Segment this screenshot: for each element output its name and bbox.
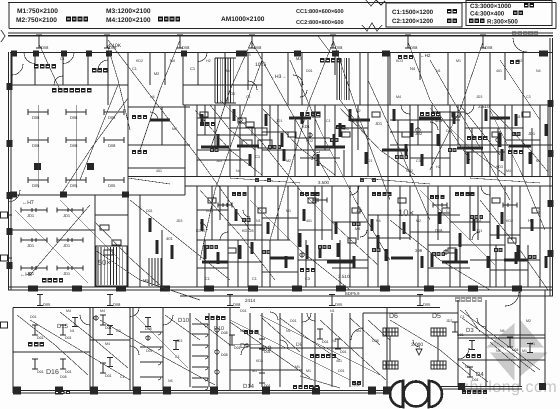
wall top rooms [10, 52, 553, 54]
cjk elevator room [34, 64, 56, 69]
thick batten fixture [509, 144, 531, 147]
door arc mid [293, 75, 303, 85]
svg-text:M3:1200×2100: M3:1200×2100 [106, 8, 151, 15]
riser tick D08 [249, 35, 255, 48]
dimension tick [467, 367, 473, 377]
cjk room i [372, 192, 392, 196]
cjk mid room c [467, 136, 487, 140]
fixture bar [201, 114, 204, 126]
svg-text:N4: N4 [150, 95, 155, 99]
wire mid [230, 178, 300, 183]
wire mid [262, 108, 335, 175]
svg-text:M4: M4 [66, 309, 71, 313]
thick batten fixture [350, 118, 370, 121]
corridor name cjk2 [360, 178, 376, 182]
fixture bar [503, 203, 517, 208]
canteen fixture stems [37, 105, 39, 188]
lower bottom wall inner a [13, 392, 391, 394]
wall column dash [512, 286, 522, 292]
column [33, 51, 39, 57]
svg-text:JD3: JD3 [476, 95, 482, 99]
door arc [205, 334, 208, 337]
stairwell treads C x97-126 y246-285 [98, 247, 123, 285]
revolving door [390, 381, 403, 407]
thick batten fixture [391, 256, 413, 259]
fluorescent D08 [104, 137, 124, 143]
top band extra rooms x128-183 [149, 53, 151, 86]
wall column dash [28, 286, 38, 292]
svg-text:N4: N4 [410, 66, 416, 71]
wire [408, 42, 470, 160]
fixture bar [265, 114, 268, 126]
wire [200, 60, 262, 260]
svg-text:D6: D6 [389, 313, 398, 320]
svg-text:D01: D01 [340, 350, 347, 354]
svg-text:KD126: KD126 [242, 229, 254, 233]
canteen bottom wall [10, 194, 185, 196]
column [548, 200, 554, 207]
svg-text:N6: N6 [168, 379, 173, 383]
cjk room label a [320, 58, 341, 62]
column [106, 51, 112, 57]
column [7, 140, 13, 147]
fixture bar [171, 245, 174, 259]
column [90, 387, 98, 395]
left edge protrusion symbols [1, 212, 8, 218]
fixture bar [517, 245, 520, 259]
column [382, 51, 390, 57]
fixture bar [149, 218, 152, 232]
column [210, 387, 218, 395]
riser tick D08 [36, 35, 42, 48]
wire lower [230, 322, 310, 378]
wall column dash [424, 286, 434, 292]
riser tick D08 [480, 35, 486, 48]
svg-text:D01: D01 [446, 129, 453, 133]
fixture bar [545, 124, 548, 136]
corridor tick D05 [329, 295, 335, 306]
svg-text:N4: N4 [376, 219, 381, 223]
svg-text:M1: M1 [536, 159, 541, 163]
wire lower [262, 318, 300, 352]
column [294, 51, 301, 57]
column [11, 51, 17, 57]
door arc [163, 315, 173, 325]
svg-text:401: 401 [306, 219, 312, 223]
door arc [481, 186, 490, 195]
cjk texture [352, 222, 361, 226]
corridor bottom line [185, 185, 553, 187]
svg-text:C2:1200×1200: C2:1200×1200 [392, 18, 434, 25]
svg-text:30B: 30B [415, 248, 422, 253]
fixture bar [285, 256, 288, 268]
dimension tick [452, 322, 458, 332]
svg-text:M1: M1 [286, 209, 291, 213]
svg-text:KD3: KD3 [496, 165, 503, 169]
thick batten fixture [202, 260, 228, 263]
wire [210, 40, 252, 150]
cjk after C3 [524, 3, 534, 8]
cjk texture [205, 245, 218, 249]
svg-text:KD2: KD2 [406, 169, 413, 173]
svg-text:JD3: JD3 [176, 339, 182, 343]
svg-text:←H7: ←H7 [22, 200, 34, 206]
svg-text:401: 401 [336, 359, 342, 363]
wire arc [243, 210, 250, 217]
wall column dash [468, 286, 478, 292]
svg-text:D08: D08 [221, 353, 228, 357]
svg-text:←H2: ←H2 [420, 53, 431, 58]
door arc top right exit [513, 38, 527, 52]
column [7, 83, 13, 90]
fixture bar [217, 134, 220, 146]
cjk before R [469, 19, 485, 24]
svg-text:C3: C3 [416, 159, 421, 163]
svg-text:C3: C3 [526, 95, 531, 99]
fixture bar [431, 253, 434, 267]
wire mid [195, 110, 262, 175]
svg-text:D10: D10 [214, 326, 224, 332]
svg-text:D05: D05 [43, 302, 51, 307]
wire lower [300, 376, 340, 388]
door arc [205, 345, 208, 348]
door arc [198, 53, 207, 62]
cjk texture [432, 252, 445, 256]
svg-text:C1: C1 [190, 66, 196, 71]
svg-text:JD1: JD1 [63, 213, 71, 218]
fixture bar [421, 256, 424, 268]
legend box C1 C2 [386, 3, 462, 27]
wire br [462, 318, 535, 372]
cjk mens locker [310, 354, 336, 358]
break squiggle header [362, 23, 382, 31]
grille connector right [437, 336, 439, 361]
column [312, 387, 320, 395]
svg-text:C1:1500×1200: C1:1500×1200 [392, 9, 434, 16]
dimension tick [259, 373, 265, 383]
wire mid [360, 178, 430, 184]
middle band horizontal sub-walls [197, 134, 262, 136]
door arc [158, 332, 161, 335]
svg-text:D01: D01 [37, 336, 44, 340]
svg-text:D08: D08 [233, 302, 241, 307]
door arc [158, 362, 161, 365]
dimension tick [145, 318, 151, 327]
batten JD1 [21, 208, 47, 213]
fixture bar [281, 133, 284, 147]
svg-text:C3: C3 [246, 53, 251, 57]
wire arc [200, 223, 207, 230]
svg-text:JD2: JD2 [356, 209, 362, 213]
svg-text:D01: D01 [146, 209, 153, 213]
dimension tick [469, 341, 475, 350]
svg-text:M4: M4 [396, 95, 401, 99]
fixture bar [487, 256, 490, 268]
corridor tick D05 [417, 295, 423, 306]
svg-text:D08: D08 [410, 45, 418, 50]
fixture bar [339, 123, 342, 137]
svg-text:M4: M4 [100, 309, 105, 313]
svg-text:H2: H2 [436, 165, 441, 169]
thick batten fixture [419, 116, 441, 119]
left edge symbol lower [1, 322, 8, 328]
riser tick D08 [177, 35, 183, 48]
door arc [130, 346, 139, 355]
svg-text:M2: M2 [154, 72, 159, 76]
wire [290, 60, 390, 260]
svg-text:M4: M4 [226, 69, 231, 73]
svg-text:C3: C3 [116, 329, 121, 333]
column [332, 51, 339, 57]
wire [210, 105, 255, 150]
lower band vertical walls [196, 186, 198, 287]
stairwell treads B x337-349 [337, 58, 349, 100]
canteen diagonal wires [62, 98, 128, 193]
svg-text:C1: C1 [446, 209, 451, 213]
dimension tick [60, 359, 66, 369]
cluster 50X room [95, 214, 128, 216]
fluorescent D05 [104, 177, 124, 183]
main bottom wall outer [8, 286, 553, 288]
svg-text:C1: C1 [175, 355, 180, 359]
wire lower [368, 320, 390, 340]
fixture bar [501, 212, 504, 224]
fixture bar [411, 123, 414, 137]
cjk room label b [398, 55, 413, 59]
wire lower [462, 362, 488, 382]
wire [108, 40, 250, 230]
stair A bottom [215, 102, 236, 104]
cjk texture [395, 155, 408, 159]
svg-text:D01: D01 [290, 319, 297, 323]
thin line corridor2 [180, 295, 553, 297]
wire arc [270, 312, 278, 320]
svg-text:D01: D01 [30, 315, 37, 319]
lower bottom wall inner b [435, 388, 522, 390]
svg-text:M4:1200×2100: M4:1200×2100 [106, 17, 151, 24]
corridor name cjk [255, 178, 271, 182]
shower stalls x140-163 [140, 331, 163, 333]
wire [430, 42, 483, 170]
fixture bar [217, 252, 220, 264]
wire [130, 200, 230, 280]
svg-text:KD2: KD2 [136, 59, 143, 63]
cjk storeroom2 [132, 150, 147, 154]
cjk texture [268, 145, 281, 149]
column [122, 192, 129, 198]
wall x95 [94, 195, 96, 287]
fixture bar [405, 144, 408, 156]
fixture bar [501, 149, 504, 161]
cjk texture [372, 248, 381, 252]
wire mid [200, 190, 275, 280]
fixture bar [459, 233, 462, 247]
svg-text:D01: D01 [65, 370, 72, 374]
walls top-left rooms [11, 53, 13, 86]
fixture bar [233, 109, 236, 121]
svg-text:JD2: JD2 [216, 159, 222, 163]
svg-text:D01: D01 [240, 309, 247, 313]
cjk room l [430, 195, 444, 199]
wire [333, 40, 390, 200]
dimension tick [229, 335, 235, 345]
door arc [205, 367, 208, 370]
gray cjk fire exit mid [455, 297, 482, 302]
fixture bar [156, 240, 159, 254]
dimension tick [173, 341, 179, 350]
walls top-middle rooms [182, 53, 184, 106]
dense cluster x148-162 y235-287 [149, 258, 161, 286]
svg-text:JD1: JD1 [27, 243, 35, 248]
break squiggle left [1, 30, 5, 42]
thick batten fixture [289, 116, 311, 119]
fixture bar [319, 246, 322, 258]
svg-text:N4: N4 [496, 349, 501, 353]
fixture bar [333, 134, 336, 146]
fixture bar [515, 252, 518, 264]
svg-text:M4: M4 [356, 329, 361, 333]
svg-text:M2: M2 [526, 319, 531, 323]
fixture bar [515, 114, 518, 126]
fixture bar [251, 242, 254, 254]
cjk washroom [244, 330, 258, 334]
cjk retail label [52, 88, 91, 93]
column [7, 228, 13, 235]
batten JD1 [57, 238, 83, 243]
fixture bar [439, 212, 442, 224]
wall column dash [380, 286, 390, 292]
extra small rects [200, 112, 208, 117]
header bottom border [9, 28, 556, 30]
svg-text:N6: N6 [240, 329, 245, 333]
column [133, 387, 141, 395]
fixture bar [545, 256, 548, 268]
wire mid [340, 108, 415, 175]
fluorescent D05 [66, 177, 86, 183]
door arc [280, 340, 288, 348]
fixture bar [218, 203, 232, 208]
column [539, 383, 546, 390]
svg-text:KD1: KD1 [302, 124, 311, 129]
fixture bar [301, 112, 304, 124]
header left border [8, 3, 10, 29]
svg-text:C1: C1 [246, 95, 251, 99]
svg-text:M2: M2 [286, 159, 291, 163]
stairwell treads A x215-235 [215, 58, 233, 103]
rooms x128-185 lower [139, 195, 141, 287]
fluorescent D08 [28, 137, 48, 143]
cjk mid room b [420, 112, 440, 116]
left exterior wall outer [8, 52, 10, 290]
thick batten fixture [270, 256, 294, 259]
wire lower [60, 312, 128, 368]
toilet stalls comb [192, 323, 208, 325]
fixture bar [385, 249, 388, 261]
dimension tick [317, 329, 323, 339]
thick batten fixture [315, 145, 345, 148]
riser tick D08 [330, 35, 336, 48]
column [548, 100, 554, 107]
equipment rects middle [240, 128, 252, 135]
wall column dash [292, 286, 302, 292]
lower block left wall [12, 308, 14, 394]
wire [260, 315, 380, 375]
wire arc [413, 340, 420, 347]
dimension tick [32, 359, 38, 369]
door arc room1 [12, 64, 23, 75]
canteen right wall [127, 85, 129, 195]
cjk mid room a [300, 112, 320, 116]
extra mid horizontal walls [197, 117, 230, 119]
right exterior wall inner [552, 38, 554, 296]
fixture bar [299, 233, 302, 247]
svg-text:KD2: KD2 [506, 219, 513, 223]
column [458, 383, 465, 390]
wire mid [490, 108, 548, 172]
fixture bar [421, 154, 424, 166]
grille fixture [383, 328, 398, 336]
svg-text:D01: D01 [338, 369, 345, 373]
column [548, 150, 554, 157]
thick batten fixture [490, 116, 510, 119]
wire [390, 320, 470, 375]
wire [220, 100, 300, 190]
svg-text:JD1: JD1 [342, 126, 350, 131]
svg-text:D08: D08 [108, 143, 116, 148]
wire arc [300, 90, 307, 97]
grille fixture [431, 361, 446, 369]
fluorescent D08 [28, 109, 48, 115]
svg-text:KD3: KD3 [396, 59, 403, 63]
wire mid [470, 178, 540, 183]
legend box C3 C4 [466, 1, 552, 26]
fixture bar [267, 222, 270, 234]
door arc [465, 105, 474, 114]
wire lower [350, 318, 380, 345]
left exterior wall inner [10, 52, 12, 290]
dimension tick [107, 326, 113, 335]
wire [270, 42, 333, 240]
column [60, 192, 67, 198]
column [236, 51, 247, 57]
svg-text:D05: D05 [32, 183, 40, 188]
svg-text:N4: N4 [236, 169, 241, 173]
right exterior wall outer [549, 38, 551, 296]
svg-text:JD2: JD2 [446, 319, 452, 323]
door arc [205, 356, 208, 359]
cjk mens wc [205, 316, 225, 320]
lower bottom wall outer b [435, 386, 522, 388]
dimension tick [72, 318, 78, 327]
svg-text:401: 401 [166, 236, 173, 241]
svg-text:D08: D08 [372, 339, 379, 343]
wall column dash [336, 286, 346, 292]
fixture bar [239, 245, 242, 259]
svg-text:4.10K: 4.10K [108, 43, 122, 49]
wire arc [312, 152, 320, 160]
svg-text:D01: D01 [306, 69, 313, 73]
cjk texture [262, 250, 271, 254]
svg-text:N1: N1 [70, 329, 75, 333]
dimension tick [60, 325, 66, 335]
fixture bar [249, 154, 252, 166]
column [55, 387, 63, 395]
svg-text:D01: D01 [65, 336, 72, 340]
thick batten fixture [201, 145, 229, 148]
fixture bar [313, 198, 327, 203]
thick batten fixture [237, 144, 259, 147]
svg-text:JD1: JD1 [375, 121, 383, 126]
